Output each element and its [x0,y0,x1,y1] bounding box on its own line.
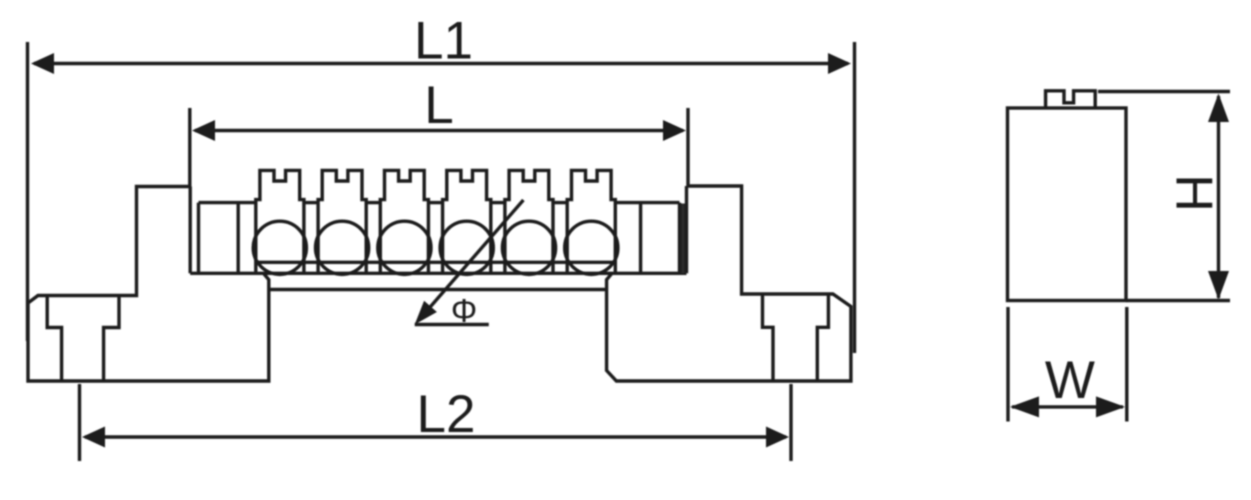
svg-text:L2: L2 [417,385,476,444]
svg-text:L: L [424,76,453,135]
svg-text:Φ: Φ [451,292,477,329]
svg-text:H: H [1165,174,1223,212]
svg-text:L1: L1 [414,12,473,71]
svg-text:W: W [1045,351,1095,410]
